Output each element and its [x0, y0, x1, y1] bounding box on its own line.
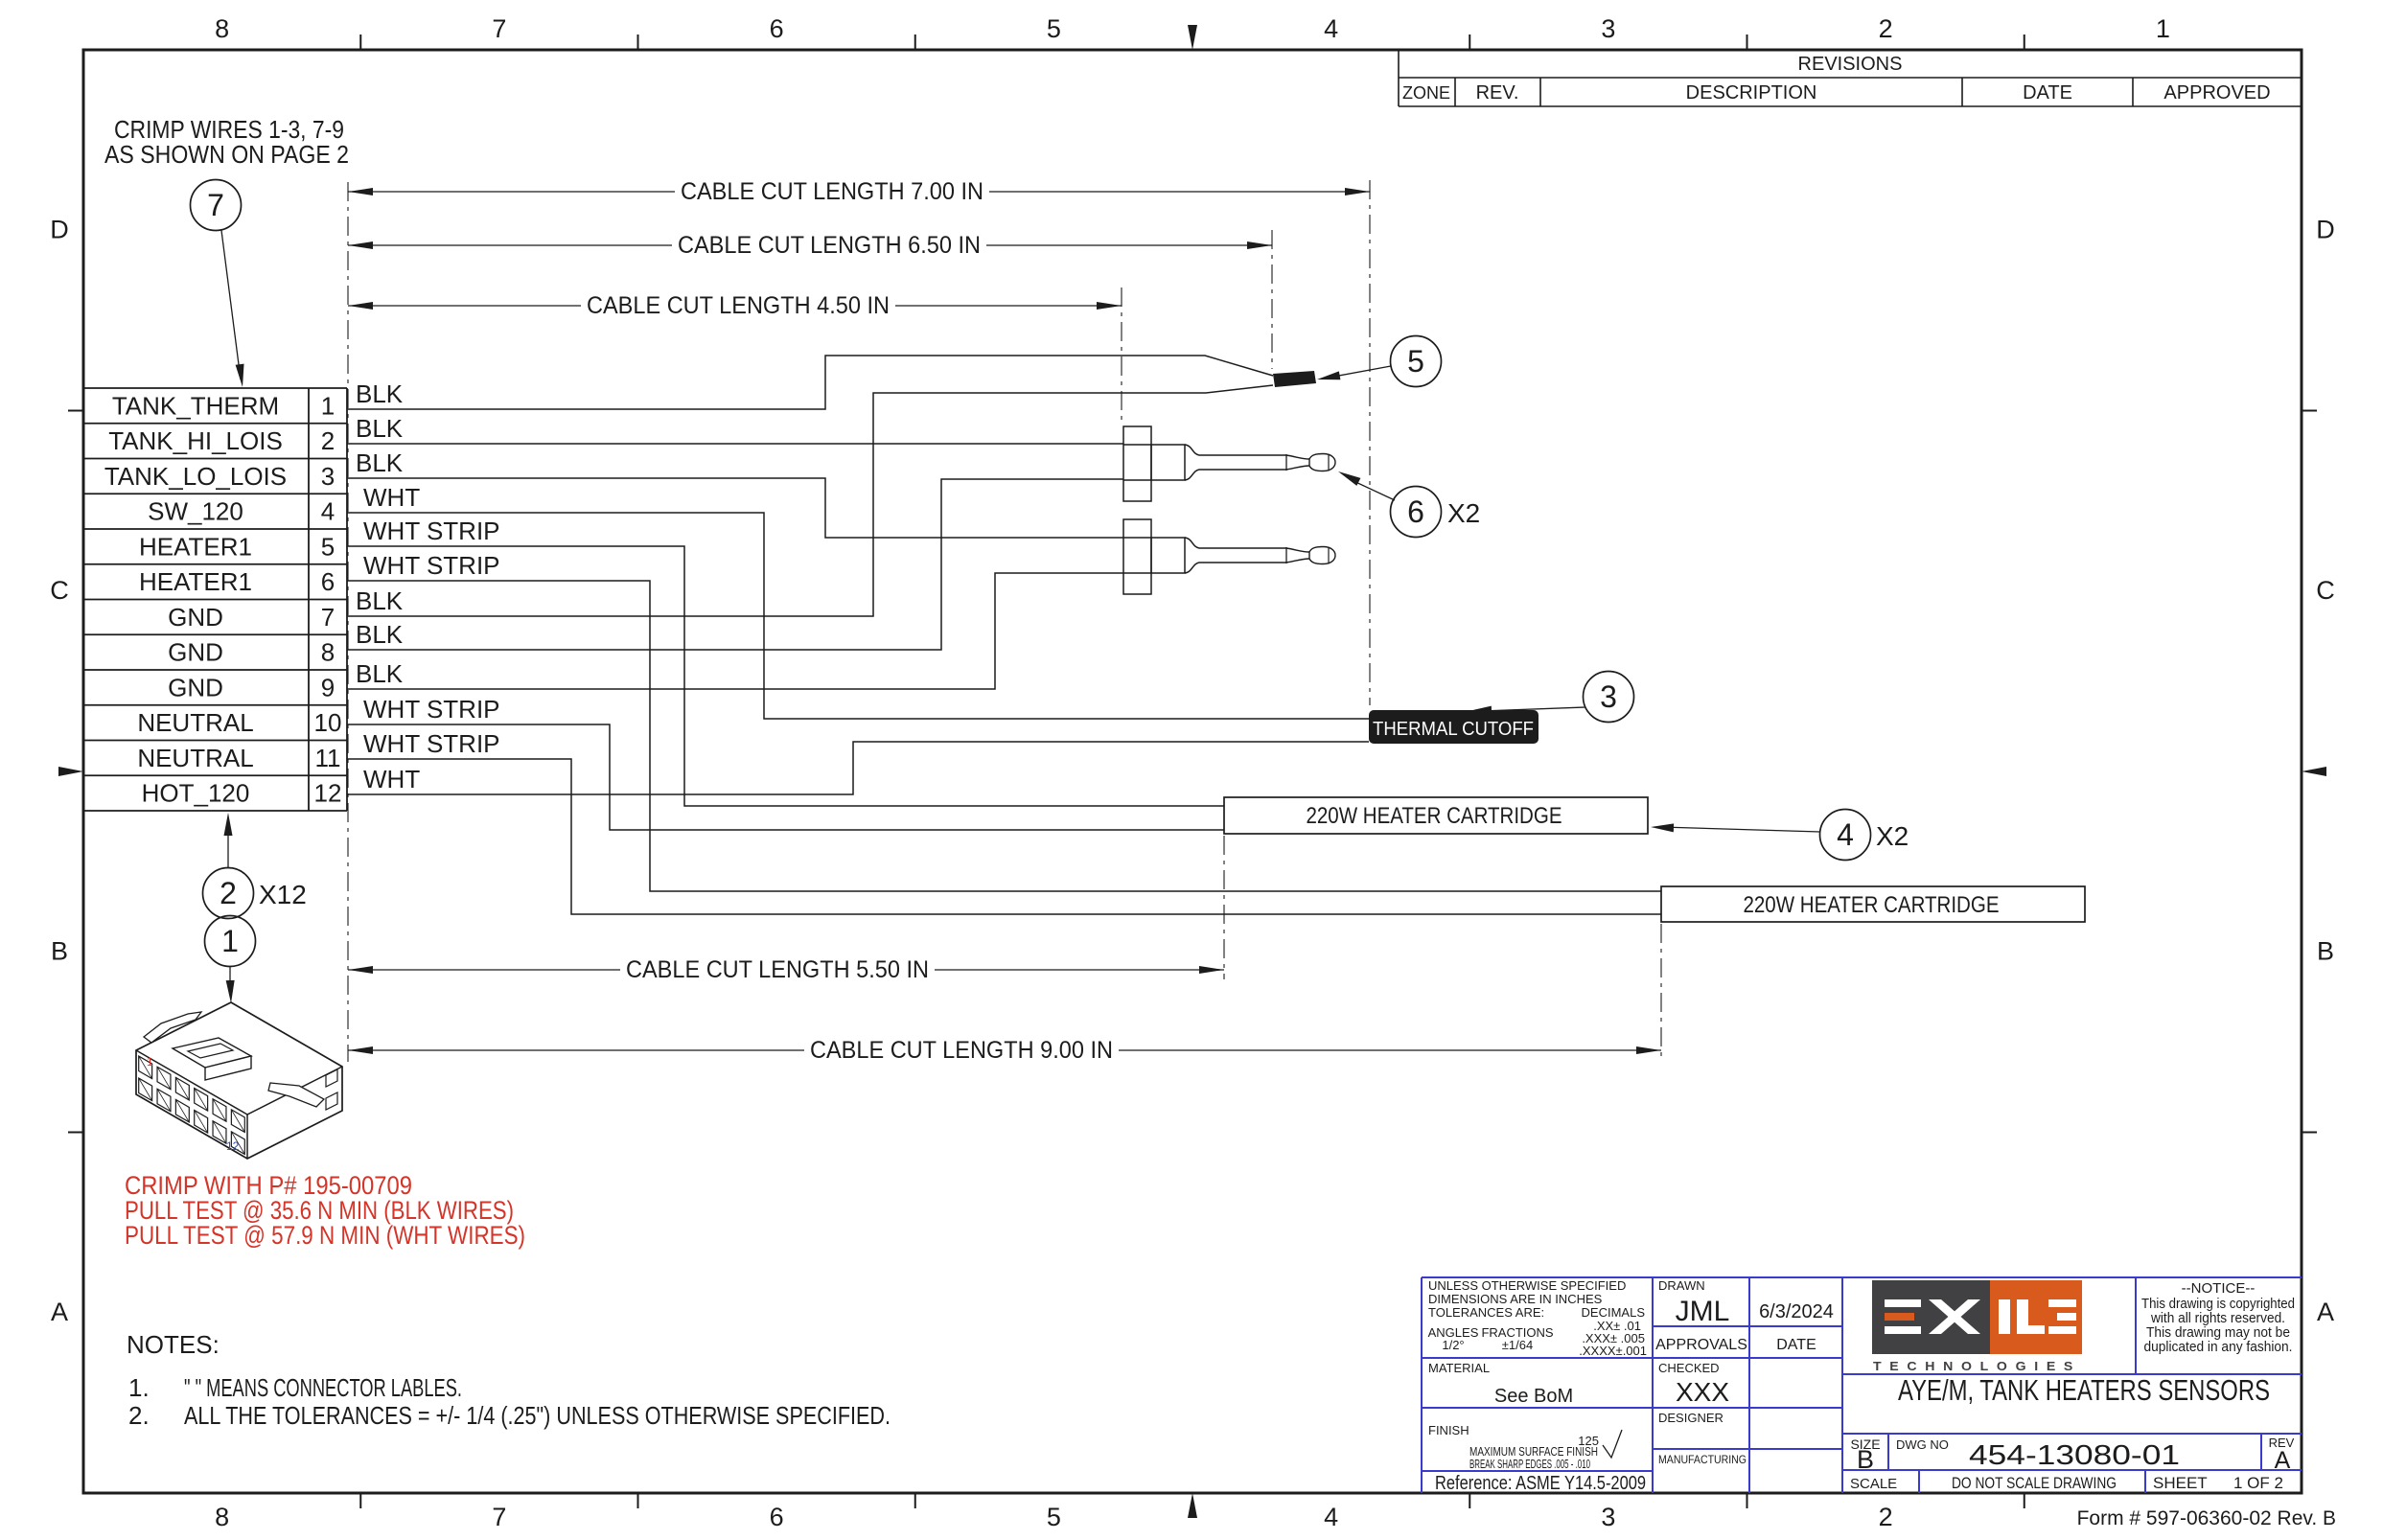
balloon 2 X12 leader to pin table	[203, 813, 307, 919]
svg-text:5: 5	[1407, 344, 1424, 379]
svg-text:BLK: BLK	[356, 379, 404, 408]
svg-text:Form # 597-06360-02 Rev. B: Form # 597-06360-02 Rev. B	[2077, 1507, 2336, 1529]
svg-text:HEATER1: HEATER1	[139, 567, 252, 596]
svg-text:11: 11	[315, 744, 341, 772]
svg-text:REV.: REV.	[1476, 82, 1519, 103]
svg-text:2: 2	[220, 876, 237, 910]
svg-text:2: 2	[321, 426, 335, 455]
svg-text:.XXXX±.001: .XXXX±.001	[1579, 1344, 1647, 1358]
notes list	[127, 1330, 891, 1430]
LOIS probe 2 (item 6)	[1123, 519, 1335, 594]
svg-text:XXX: XXX	[1676, 1377, 1729, 1407]
wire 4 WHT	[347, 483, 1369, 719]
svg-text:See BoM: See BoM	[1494, 1386, 1573, 1407]
svg-text:8: 8	[215, 14, 229, 43]
svg-text:NEUTRAL: NEUTRAL	[137, 744, 253, 772]
svg-text:C: C	[2316, 576, 2335, 605]
svg-text:NEUTRAL: NEUTRAL	[137, 708, 253, 737]
svg-text:5: 5	[321, 532, 335, 561]
svg-text:SW_120: SW_120	[148, 497, 243, 526]
dimension: cable cut length 7.00 in	[348, 178, 1370, 1062]
svg-text:GND: GND	[168, 638, 223, 667]
svg-text:1/2°: 1/2°	[1442, 1338, 1464, 1352]
svg-text:DECIMALS: DECIMALS	[1582, 1305, 1646, 1320]
svg-text:Reference: ASME Y14.5-2009: Reference: ASME Y14.5-2009	[1435, 1473, 1646, 1494]
wire 10 WHT STRIP	[347, 695, 1224, 830]
svg-text:7: 7	[492, 14, 506, 43]
dimension: cable cut length 6.50 in	[348, 230, 1272, 369]
svg-text:9: 9	[321, 673, 335, 701]
dimension: cable cut length 4.50 in	[348, 287, 1122, 425]
svg-text:5: 5	[1047, 1503, 1061, 1531]
svg-text:A: A	[2275, 1447, 2291, 1474]
svg-text:C: C	[50, 576, 69, 605]
svg-text:1: 1	[221, 924, 239, 958]
svg-text:CABLE CUT LENGTH 6.50 IN: CABLE CUT LENGTH 6.50 IN	[678, 232, 981, 259]
svg-text:MANUFACTURING: MANUFACTURING	[1658, 1453, 1747, 1466]
connector pin table	[83, 388, 347, 811]
svg-text:8: 8	[215, 1503, 229, 1531]
svg-text:2.: 2.	[128, 1401, 150, 1430]
svg-text:X2: X2	[1447, 498, 1480, 528]
wire 3 BLK	[347, 448, 1123, 538]
svg-text:DRAWN: DRAWN	[1658, 1278, 1705, 1293]
svg-text:1.: 1.	[128, 1373, 150, 1402]
svg-text:1: 1	[2156, 14, 2170, 43]
svg-text:TANK_THERM: TANK_THERM	[112, 391, 279, 420]
svg-text:B: B	[51, 936, 68, 965]
svg-text:DESIGNER: DESIGNER	[1658, 1411, 1724, 1425]
form number	[2077, 1507, 2336, 1529]
LOIS probe 1 (item 6)	[1123, 426, 1335, 501]
svg-text:JML: JML	[1676, 1296, 1730, 1327]
svg-text:D: D	[50, 215, 69, 243]
svg-text:CABLE CUT LENGTH 4.50 IN: CABLE CUT LENGTH 4.50 IN	[587, 292, 890, 319]
svg-text:UNLESS OTHERWISE SPECIFIED: UNLESS OTHERWISE SPECIFIED	[1428, 1278, 1626, 1293]
svg-text:7: 7	[207, 188, 224, 222]
svg-text:REVISIONS: REVISIONS	[1798, 54, 1903, 75]
svg-text:DO NOT SCALE DRAWING: DO NOT SCALE DRAWING	[1952, 1474, 2117, 1492]
svg-text:6/3/2024: 6/3/2024	[1759, 1301, 1834, 1322]
svg-text:A: A	[51, 1298, 68, 1326]
svg-text:4: 4	[321, 497, 335, 526]
svg-text:PULL TEST @ 57.9 N MIN (WHT WI: PULL TEST @ 57.9 N MIN (WHT WIRES)	[125, 1221, 525, 1250]
wire 8 BLK	[347, 479, 1123, 650]
revisions table	[1399, 50, 2302, 106]
svg-text:WHT: WHT	[363, 483, 420, 512]
balloon 5 leader to thermistor	[1317, 336, 1442, 387]
svg-text:220W HEATER CARTRIDGE: 220W HEATER CARTRIDGE	[1307, 803, 1562, 829]
svg-text:D: D	[2316, 215, 2335, 243]
svg-text:2: 2	[1879, 14, 1893, 43]
svg-text:B: B	[2317, 936, 2334, 965]
svg-text:APPROVALS: APPROVALS	[1655, 1337, 1747, 1353]
wire 6 WHT STRIP	[347, 551, 1661, 891]
svg-text:" " MEANS CONNECTOR LABLES.: " " MEANS CONNECTOR LABLES.	[184, 1373, 462, 1402]
svg-text:GND: GND	[168, 603, 223, 632]
svg-text:BLK: BLK	[356, 620, 404, 649]
svg-text:A: A	[2317, 1298, 2334, 1326]
wire 12 WHT	[347, 742, 1369, 794]
svg-text:CHECKED: CHECKED	[1658, 1361, 1720, 1375]
balloon 3 leader to thermal cutoff	[1469, 672, 1634, 723]
svg-text:CABLE CUT LENGTH 7.00 IN: CABLE CUT LENGTH 7.00 IN	[681, 178, 983, 205]
svg-text:X2: X2	[1876, 821, 1909, 851]
svg-text:HOT_120: HOT_120	[142, 779, 250, 808]
connector housing isometric view (item 1)	[136, 1002, 342, 1159]
svg-text:6: 6	[1407, 494, 1424, 529]
svg-text:7: 7	[321, 603, 335, 632]
svg-text:TANK_HI_LOIS: TANK_HI_LOIS	[108, 426, 283, 455]
svg-text:WHT STRIP: WHT STRIP	[363, 729, 500, 758]
svg-text:DWG NO: DWG NO	[1896, 1437, 1949, 1452]
svg-text:BLK: BLK	[356, 448, 404, 477]
svg-text:BREAK SHARP EDGES .005 - .010: BREAK SHARP EDGES .005 - .010	[1469, 1457, 1590, 1471]
svg-text:APPROVED: APPROVED	[2163, 82, 2270, 103]
svg-text:SHEET: SHEET	[2153, 1474, 2208, 1492]
svg-text:DATE: DATE	[2023, 82, 2072, 103]
svg-text:AYE/M, TANK HEATERS SENSORS: AYE/M, TANK HEATERS SENSORS	[1898, 1373, 2270, 1407]
heater cartridge 1 (item 4)	[1224, 797, 1648, 834]
svg-text:WHT STRIP: WHT STRIP	[363, 695, 500, 724]
svg-text:B: B	[1857, 1445, 1874, 1474]
svg-text:DIMENSIONS ARE IN INCHES: DIMENSIONS ARE IN INCHES	[1428, 1292, 1603, 1306]
title block	[1422, 1277, 2302, 1494]
svg-text:6: 6	[770, 1503, 784, 1531]
svg-text:454-13080-01: 454-13080-01	[1969, 1440, 2180, 1471]
wire 7 BLK	[347, 385, 1273, 616]
wire 5 WHT STRIP	[347, 517, 1224, 806]
wire 9 BLK	[347, 573, 1123, 689]
note: crimp wires 1-3, 7-9	[104, 115, 349, 169]
svg-text:4: 4	[1324, 14, 1338, 43]
svg-text:±1/64: ±1/64	[1502, 1338, 1533, 1352]
svg-text:CABLE CUT LENGTH 5.50 IN: CABLE CUT LENGTH 5.50 IN	[626, 956, 929, 983]
svg-text:3: 3	[1600, 679, 1617, 714]
svg-text:X12: X12	[259, 880, 307, 909]
svg-text:DESCRIPTION: DESCRIPTION	[1686, 82, 1817, 103]
heater cartridge 2 (item 4)	[1661, 886, 2085, 922]
svg-text:1: 1	[147, 1055, 153, 1069]
svg-text:AS SHOWN ON PAGE 2: AS SHOWN ON PAGE 2	[104, 140, 349, 169]
svg-text:TECHNOLOGIES: TECHNOLOGIES	[1873, 1359, 2081, 1373]
svg-text:GND: GND	[168, 673, 223, 701]
svg-text:4: 4	[1324, 1503, 1338, 1531]
svg-text:HEATER1: HEATER1	[139, 532, 252, 561]
balloon 6 X2 leader to probe	[1338, 471, 1480, 538]
svg-text:3: 3	[1601, 14, 1615, 43]
thermistor (item 5)	[1273, 371, 1316, 387]
svg-text:12: 12	[226, 1139, 240, 1153]
svg-text:3: 3	[1601, 1503, 1615, 1531]
svg-text:THERMAL CUTOFF: THERMAL CUTOFF	[1373, 718, 1534, 740]
balloon 4 X2 leader to heater cartridge	[1651, 810, 1909, 861]
svg-text:220W HEATER CARTRIDGE: 220W HEATER CARTRIDGE	[1744, 892, 2000, 918]
svg-text:7: 7	[492, 1503, 506, 1531]
svg-text:NOTES:: NOTES:	[127, 1330, 220, 1359]
svg-text:6: 6	[321, 567, 335, 596]
svg-text:DATE: DATE	[1776, 1337, 1816, 1353]
svg-text:2: 2	[1879, 1503, 1893, 1531]
svg-text:8: 8	[321, 638, 335, 667]
svg-text:5: 5	[1047, 14, 1061, 43]
svg-text:WHT STRIP: WHT STRIP	[363, 551, 500, 580]
balloon 7 leader to pin table	[191, 180, 244, 388]
svg-text:ALL THE TOLERANCES = +/- 1/4 (: ALL THE TOLERANCES = +/- 1/4 (.25") UNLE…	[184, 1401, 891, 1430]
svg-text:WHT: WHT	[363, 765, 420, 793]
svg-text:MATERIAL: MATERIAL	[1428, 1361, 1490, 1375]
svg-text:6: 6	[770, 14, 784, 43]
svg-text:BLK: BLK	[356, 414, 404, 443]
svg-text:1 OF 2: 1 OF 2	[2233, 1474, 2283, 1492]
exile technologies logo	[1872, 1280, 2082, 1373]
svg-text:10: 10	[314, 708, 342, 737]
svg-text:BLK: BLK	[356, 586, 404, 615]
svg-text:ZONE: ZONE	[1402, 83, 1450, 103]
wire 1 BLK	[347, 356, 1273, 409]
svg-text:CABLE CUT LENGTH 9.00 IN: CABLE CUT LENGTH 9.00 IN	[810, 1037, 1113, 1064]
svg-text:SCALE: SCALE	[1850, 1476, 1897, 1492]
svg-text:duplicated in any fashion.: duplicated in any fashion.	[2144, 1339, 2293, 1355]
svg-text:12: 12	[314, 779, 342, 808]
svg-text:FINISH: FINISH	[1428, 1423, 1469, 1437]
svg-text:--NOTICE--: --NOTICE--	[2182, 1280, 2256, 1297]
svg-text:4: 4	[1837, 817, 1854, 852]
balloon 1 leader to connector	[205, 916, 256, 1004]
svg-text:TANK_LO_LOIS: TANK_LO_LOIS	[104, 462, 287, 491]
svg-text:WHT STRIP: WHT STRIP	[363, 517, 500, 545]
thermal cutoff (item 3)	[1369, 710, 1539, 744]
svg-text:3: 3	[321, 462, 335, 491]
dimension: cable cut length 5.50 in	[348, 836, 1224, 983]
wire 11 WHT STRIP	[347, 729, 1661, 914]
dimension: cable cut length 9.00 in	[348, 924, 1661, 1064]
svg-text:1: 1	[321, 391, 335, 420]
svg-text:TOLERANCES ARE:: TOLERANCES ARE:	[1428, 1305, 1544, 1320]
svg-text:BLK: BLK	[356, 659, 404, 688]
wire 2 BLK	[347, 414, 1123, 444]
crimp / pull test note (red)	[125, 1171, 525, 1250]
